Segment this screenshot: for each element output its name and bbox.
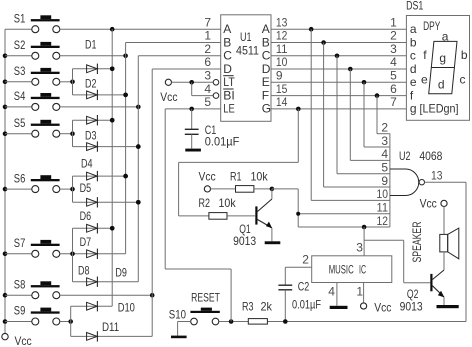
svg-text:10: 10 [276, 55, 288, 69]
svg-text:D5: D5 [80, 181, 92, 195]
svg-text:g: g [410, 102, 417, 116]
svg-text:9013: 9013 [400, 299, 423, 313]
svg-text:C: C [262, 49, 271, 63]
svg-text:B: B [223, 35, 231, 49]
svg-text:7: 7 [390, 95, 397, 109]
svg-text:D9: D9 [115, 266, 127, 280]
svg-text:S2: S2 [14, 38, 26, 52]
svg-text:D3: D3 [85, 129, 97, 143]
svg-text:S10: S10 [169, 308, 186, 322]
svg-text:D10: D10 [118, 301, 135, 315]
svg-text:BI: BI [223, 88, 235, 102]
svg-text:Vcc: Vcc [15, 334, 32, 347]
svg-text:a: a [442, 30, 449, 44]
svg-text:e: e [410, 75, 417, 89]
svg-text:6: 6 [390, 82, 397, 96]
svg-text:e: e [421, 73, 428, 87]
svg-text:D7: D7 [80, 235, 92, 249]
svg-text:S3: S3 [14, 64, 26, 78]
svg-text:13: 13 [276, 15, 288, 29]
svg-text:c: c [410, 49, 416, 63]
svg-text:E: E [262, 75, 270, 89]
svg-text:B: B [262, 35, 270, 49]
svg-text:10k: 10k [251, 170, 269, 184]
svg-text:14: 14 [276, 95, 288, 109]
svg-text:5: 5 [390, 69, 397, 83]
svg-text:12: 12 [377, 214, 389, 228]
svg-text:9: 9 [381, 174, 388, 188]
svg-text:IC: IC [359, 262, 366, 276]
svg-text:11: 11 [276, 42, 288, 56]
svg-text:D4: D4 [81, 156, 93, 170]
svg-text:4: 4 [328, 285, 335, 299]
svg-text:Vcc: Vcc [199, 170, 216, 184]
svg-text:1: 1 [204, 29, 211, 43]
svg-text:5: 5 [381, 161, 388, 175]
svg-text:SPEAKER: SPEAKER [410, 221, 424, 262]
svg-text:2: 2 [302, 252, 309, 266]
svg-text:2: 2 [381, 121, 388, 135]
svg-text:c: c [460, 73, 466, 87]
svg-text:LT: LT [223, 75, 235, 89]
svg-text:4068: 4068 [419, 149, 442, 163]
svg-text:R3: R3 [242, 300, 254, 314]
svg-text:S5: S5 [14, 116, 26, 130]
svg-text:U1: U1 [240, 30, 252, 44]
svg-text:b: b [410, 35, 417, 49]
svg-text:6: 6 [204, 55, 211, 69]
svg-text:Vcc: Vcc [374, 300, 391, 314]
svg-text:DPY: DPY [423, 19, 440, 33]
svg-text:2k: 2k [261, 300, 273, 314]
svg-text:15: 15 [276, 82, 288, 96]
svg-text:D2: D2 [85, 77, 97, 91]
svg-text:D11: D11 [102, 320, 119, 334]
svg-text:S9: S9 [14, 304, 26, 318]
svg-text:S7: S7 [14, 236, 26, 250]
svg-text:R2: R2 [199, 196, 211, 210]
svg-text:RESET: RESET [191, 291, 220, 305]
svg-text:S8: S8 [14, 277, 26, 291]
svg-text:D6: D6 [80, 209, 92, 223]
svg-text:7: 7 [204, 15, 211, 29]
svg-text:D: D [223, 62, 232, 76]
svg-text:C2: C2 [298, 279, 310, 293]
svg-text:10k: 10k [219, 196, 237, 210]
svg-text:1: 1 [356, 285, 363, 299]
svg-text:3: 3 [381, 134, 388, 148]
svg-text:d: d [410, 62, 417, 76]
svg-text:A: A [223, 22, 231, 36]
svg-text:D: D [262, 62, 271, 76]
svg-text:5: 5 [204, 95, 211, 109]
svg-text:4: 4 [390, 55, 397, 69]
svg-text:D8: D8 [78, 264, 90, 278]
svg-text:10: 10 [377, 187, 389, 201]
svg-text:G: G [262, 102, 271, 116]
svg-text:a: a [410, 22, 417, 36]
svg-text:12: 12 [276, 29, 288, 43]
svg-text:S1: S1 [14, 11, 26, 25]
svg-text:0.01µF: 0.01µF [292, 297, 321, 311]
svg-text:F: F [262, 88, 269, 102]
svg-text:DS1: DS1 [406, 0, 423, 13]
svg-text:11: 11 [377, 201, 389, 215]
svg-text:D1: D1 [85, 38, 97, 52]
svg-text:Vcc: Vcc [160, 90, 177, 104]
svg-text:[LEDgn]: [LEDgn] [420, 102, 459, 116]
svg-text:4: 4 [204, 82, 211, 96]
svg-text:d: d [438, 77, 445, 91]
svg-text:3: 3 [356, 240, 363, 254]
svg-text:U2: U2 [399, 149, 411, 163]
svg-text:2: 2 [390, 29, 397, 43]
svg-text:S6: S6 [14, 171, 26, 185]
svg-text:g: g [439, 51, 446, 65]
svg-text:9: 9 [276, 69, 283, 83]
svg-text:Vcc: Vcc [420, 197, 437, 211]
svg-text:MUSIC: MUSIC [329, 262, 354, 276]
svg-text:2: 2 [204, 42, 211, 56]
svg-text:3: 3 [390, 42, 397, 56]
svg-text:R1: R1 [230, 170, 242, 184]
svg-text:LE: LE [223, 102, 235, 116]
svg-text:4511: 4511 [236, 43, 259, 57]
svg-text:1: 1 [390, 15, 397, 29]
svg-text:C: C [223, 49, 232, 63]
svg-text:0.01µF: 0.01µF [205, 135, 240, 149]
svg-text:13: 13 [431, 169, 443, 183]
svg-text:3: 3 [204, 69, 211, 83]
svg-text:4: 4 [381, 147, 388, 161]
svg-text:b: b [461, 48, 468, 62]
svg-text:A: A [262, 22, 270, 36]
svg-text:9013: 9013 [233, 234, 256, 248]
svg-text:S4: S4 [14, 89, 26, 103]
